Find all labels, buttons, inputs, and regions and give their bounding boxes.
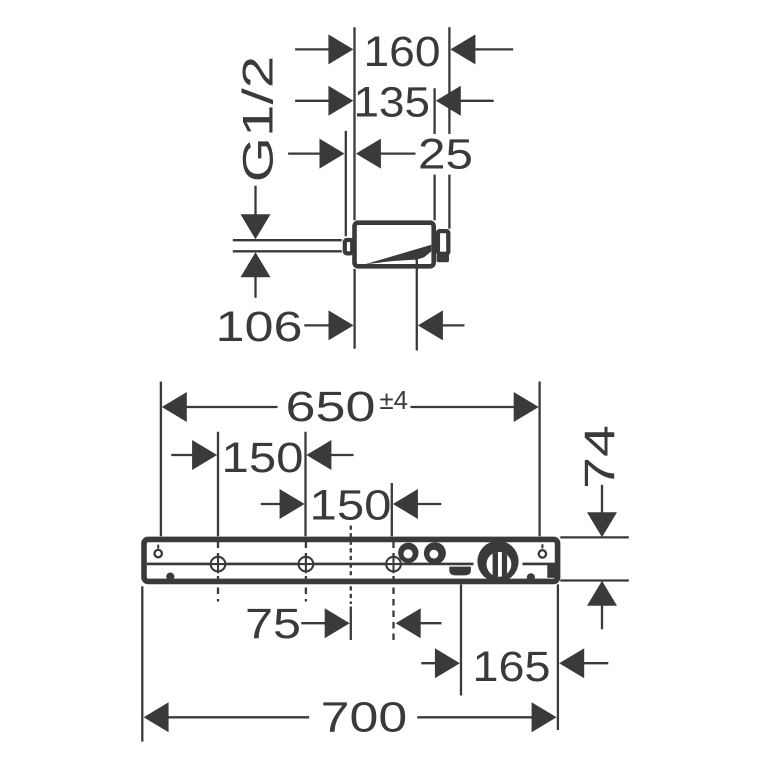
pipe double line G1/2 xyxy=(233,240,342,251)
arrow 700 left xyxy=(144,702,169,732)
arrow 650 right xyxy=(514,392,539,422)
bar inner ledge line xyxy=(147,563,555,566)
arrow G1/2 up xyxy=(241,252,271,277)
dim stems 75 xyxy=(301,622,441,624)
extension 650 right xyxy=(538,382,540,537)
extension line 160 right xyxy=(448,27,450,229)
arrow 165 right xyxy=(559,648,584,678)
svg-text:106: 106 xyxy=(216,304,303,351)
connection cross circle 3 xyxy=(384,555,402,573)
extension line 25 left xyxy=(345,131,347,236)
extension 150 right xyxy=(391,483,393,536)
dim line 650 xyxy=(186,406,514,408)
internal wedge (lever) xyxy=(357,245,432,267)
arrow 150 second left xyxy=(280,489,305,519)
arrow 75 left xyxy=(325,608,350,638)
dim stems 160 xyxy=(295,48,513,50)
right outlet stub xyxy=(438,231,448,254)
svg-text:700: 700 xyxy=(321,695,408,742)
extension 165 left xyxy=(460,584,462,695)
arrow 25 right xyxy=(356,139,381,169)
right end cap step xyxy=(547,565,555,578)
dim stems 150 first xyxy=(171,454,353,456)
svg-text:150: 150 xyxy=(310,483,392,530)
arrow 150 second right xyxy=(393,489,418,519)
arrow 74 up xyxy=(587,581,617,606)
hose outlet blob xyxy=(449,567,471,576)
bar outline xyxy=(144,539,558,581)
left foot pad xyxy=(166,573,174,581)
connection cross circle 1 xyxy=(209,555,227,573)
right screw hole xyxy=(539,550,546,557)
dim line 700 xyxy=(168,716,532,718)
svg-text:74: 74 xyxy=(577,425,624,489)
dashed hole axis 3 xyxy=(392,542,394,642)
svg-text:150: 150 xyxy=(222,435,304,482)
arrow 106 right xyxy=(418,310,443,340)
74 leader stems xyxy=(601,485,603,630)
arrow 160 left xyxy=(328,34,353,64)
svg-text:G1/2: G1/2 xyxy=(236,56,283,183)
arrow 106 left xyxy=(329,310,354,340)
arrow 150 first left xyxy=(192,440,217,470)
extension line 106 left xyxy=(353,269,355,349)
extension 150 shared xyxy=(304,432,306,537)
arrow 650 left xyxy=(162,392,187,422)
svg-text:650: 650 xyxy=(286,384,376,431)
dim stems 135 xyxy=(295,100,494,102)
extension line 160/135 left (long vertical) xyxy=(353,27,355,220)
extension 74 top xyxy=(560,536,629,538)
arrow G1/2 down xyxy=(241,214,271,239)
left screw hole xyxy=(155,550,162,557)
arrow 74 down xyxy=(587,512,617,537)
left inlet nub G1/2 xyxy=(345,240,352,253)
extension 700 left xyxy=(141,586,143,741)
extension 74 bottom xyxy=(560,579,629,581)
dashed hole axis 1 xyxy=(217,542,219,602)
dim stems 106 xyxy=(304,324,464,326)
screw hole axis ticks xyxy=(158,544,542,548)
arrow 160 right xyxy=(450,34,475,64)
dim stems 165 xyxy=(421,662,608,664)
arrow 25 left xyxy=(320,139,345,169)
arrow 135 right xyxy=(436,86,461,116)
dim stems 25 xyxy=(288,152,415,154)
connection cross circle 2 xyxy=(297,555,315,573)
outlet stub foot xyxy=(437,254,450,262)
right foot pad xyxy=(527,573,535,581)
valve body outline xyxy=(355,223,434,267)
extension line 135 right xyxy=(433,88,435,220)
extension line 106 right xyxy=(416,259,418,350)
arrow 700 right xyxy=(532,702,557,732)
svg-text:135: 135 xyxy=(354,79,431,126)
arrow 135 left xyxy=(328,86,353,116)
svg-text:±4: ±4 xyxy=(380,387,409,415)
extension 150 first xyxy=(217,432,219,537)
center line dash-dot xyxy=(350,526,352,605)
svg-text:25: 25 xyxy=(418,132,473,179)
extension 650 left xyxy=(160,382,162,537)
center line solid tail xyxy=(350,607,352,641)
arrow 165 left xyxy=(435,648,460,678)
ring port 2 xyxy=(424,542,446,564)
ring port 1 xyxy=(398,543,418,563)
svg-text:75: 75 xyxy=(245,601,301,648)
arrow 75 right xyxy=(396,608,421,638)
dashed hole axis 2 xyxy=(305,542,307,602)
svg-text:160: 160 xyxy=(364,29,441,76)
dim stems 150 second xyxy=(261,503,442,505)
arrow 150 first right xyxy=(306,440,331,470)
select knob xyxy=(477,541,518,582)
svg-text:165: 165 xyxy=(473,644,551,691)
G1/2 leader xyxy=(254,186,256,298)
extension 700/165 right xyxy=(557,584,559,730)
